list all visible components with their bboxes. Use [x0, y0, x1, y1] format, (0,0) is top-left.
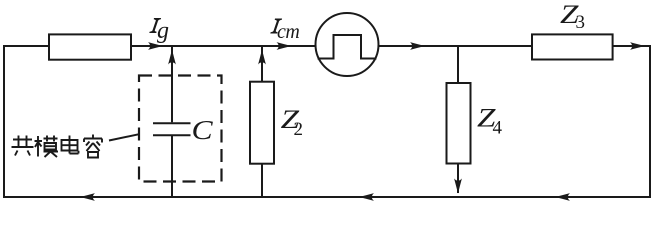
- current arrow up on Z2 branch: [258, 50, 266, 65]
- Z2 branch upper wire: [261, 46, 263, 82]
- 容: [84, 135, 102, 158]
- 电: [62, 136, 79, 154]
- capacitor C plates: [153, 123, 191, 135]
- 模: [35, 136, 59, 158]
- Z4 branch upper wire: [457, 46, 459, 83]
- svg-text:3: 3: [576, 12, 586, 33]
- return arrow left on bottom wire (right): [555, 193, 570, 201]
- pulse source circle: [316, 13, 379, 76]
- capacitor branch lower wire: [171, 136, 173, 198]
- current arrow into top-right corner: [630, 42, 645, 50]
- current arrow down on Z4 branch: [454, 179, 462, 194]
- label C: [192, 116, 214, 146]
- wire pulse source to Z3: [379, 45, 533, 47]
- wire left side of loop: [3, 45, 5, 198]
- svg-text:cm: cm: [277, 21, 299, 43]
- label 共模电容 (drawn strokes): [12, 135, 103, 158]
- wire resistor to pulse source: [131, 45, 316, 47]
- resistor (line impedance box, unlabeled): [49, 34, 131, 59]
- pulse source waveform: [318, 35, 377, 59]
- svg-text:2: 2: [294, 119, 304, 140]
- impedance Z3 box: [532, 34, 613, 59]
- impedance Z4 box: [447, 83, 471, 164]
- label Z2: [281, 105, 303, 140]
- current arrow after pulse source: [410, 42, 425, 50]
- return arrow left on bottom wire (middle): [359, 193, 374, 201]
- return arrow left on bottom wire (left): [80, 193, 95, 201]
- wire Z3 to top-right corner: [613, 45, 650, 47]
- wire right side of loop: [649, 45, 651, 198]
- label Ig: [149, 18, 169, 44]
- leader line from label to dashed box: [109, 134, 139, 140]
- svg-text:4: 4: [493, 117, 503, 138]
- svg-text:g: g: [157, 18, 169, 44]
- Z4 branch lower wire: [457, 164, 459, 194]
- wire top-left into resistor: [3, 45, 49, 47]
- Z2 branch lower wire: [261, 164, 263, 198]
- current arrow up on capacitor branch: [168, 50, 176, 65]
- impedance Z2 box: [250, 82, 274, 164]
- label Z4: [477, 103, 503, 138]
- svg-text:C: C: [192, 116, 214, 146]
- label Z3: [560, 0, 585, 33]
- wire bottom of loop: [3, 196, 651, 198]
- capacitor branch upper wire: [171, 46, 173, 122]
- dashed box around common-mode capacitor: [139, 76, 222, 182]
- label Icm: [270, 19, 299, 44]
- 共: [12, 136, 34, 156]
- current arrow Icm on top wire: [277, 42, 292, 50]
- current arrow Ig on top wire: [148, 42, 163, 50]
